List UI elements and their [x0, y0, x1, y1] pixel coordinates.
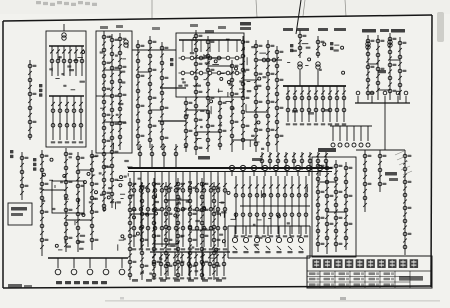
sub bus	[150, 251, 230, 253]
upper mid link chains	[139, 144, 141, 168]
S3 coupler row 1	[181, 56, 185, 60]
S2 chain b	[111, 34, 113, 208]
title right cell text	[399, 276, 423, 281]
S1 bus upper	[49, 45, 84, 47]
right column chain B	[379, 150, 381, 192]
title text	[313, 259, 321, 268]
sub bus feeders	[153, 252, 155, 276]
S2 chain c	[119, 33, 121, 150]
line crossing top border	[296, 0, 301, 34]
top labels central	[240, 22, 251, 26]
station box S8	[312, 157, 356, 257]
S8 label	[318, 148, 336, 152]
main bus double line	[128, 167, 332, 169]
umbrella label	[56, 281, 62, 284]
rank2 collector line	[240, 205, 310, 207]
title divider	[307, 270, 432, 272]
border frame left	[2, 21, 4, 288]
S1 incoming	[63, 24, 65, 31]
faint margin crossing lines	[151, 0, 153, 18]
S4 coupler bus	[258, 59, 282, 61]
S5 drop to right column	[384, 103, 386, 150]
S2-S3 link	[132, 49, 176, 51]
S5 transformer doubles	[366, 42, 370, 46]
right column chain A	[364, 150, 366, 212]
left-central ties	[138, 71, 150, 73]
S4 comb	[330, 125, 372, 127]
border frame top	[3, 15, 432, 21]
left ties	[42, 189, 66, 191]
left-central chains	[137, 40, 139, 150]
pencil scribbles	[395, 151, 404, 155]
station box S3	[176, 33, 244, 97]
S9 frame	[228, 225, 310, 227]
smudge text top-left	[36, 1, 41, 4]
S4 below feeders	[261, 152, 263, 170]
station box S2	[96, 31, 132, 153]
S5 top labels	[283, 28, 293, 31]
gray streak outside border top-right	[437, 12, 444, 42]
central ties	[186, 109, 208, 111]
S3 drops	[182, 40, 184, 52]
border frame right	[431, 15, 432, 287]
S5 bottom bus	[355, 102, 410, 104]
S4 bus	[283, 85, 346, 87]
title block outer	[307, 256, 432, 288]
left chain 2	[21, 152, 23, 200]
S8 ties	[318, 181, 336, 183]
border frame bottom	[3, 286, 431, 288]
S5 chains	[367, 35, 369, 100]
S4 transformers	[298, 62, 302, 66]
S8 chains	[317, 160, 319, 252]
S1 mid details	[59, 56, 61, 59]
S4 feeders	[287, 86, 289, 122]
S2 transformer	[124, 40, 128, 44]
bottom faint streak	[105, 300, 440, 302]
title table text	[309, 272, 316, 275]
S2 chain a	[103, 31, 105, 212]
water plant box	[52, 181, 84, 213]
S3 inner labels	[196, 85, 201, 87]
S5 ties	[368, 63, 378, 65]
S1 label	[39, 84, 42, 87]
bus hanging feeders rank2	[235, 176, 237, 234]
S1 feeders upper	[51, 46, 53, 76]
left small box	[8, 203, 32, 225]
S1 bus lower	[49, 95, 84, 97]
S3 bus	[179, 39, 241, 41]
S1 feeders lower	[52, 96, 54, 140]
bus drum units	[229, 165, 234, 170]
right distribution line	[356, 149, 405, 151]
title table verticals	[319, 271, 321, 288]
left long chain	[29, 60, 31, 140]
dense block chains	[129, 178, 131, 280]
mid labels	[198, 156, 210, 160]
station box S1	[46, 31, 86, 147]
left labels	[33, 158, 36, 161]
right labels	[385, 172, 397, 176]
central chains	[185, 97, 187, 152]
central sub-buses	[158, 120, 186, 122]
S4 labels	[290, 44, 293, 47]
S2 extra	[113, 143, 115, 150]
bus hanging feeders rank1	[133, 172, 135, 248]
title table rows	[307, 276, 410, 278]
S5 mid label	[378, 70, 386, 73]
bottom inner labels	[132, 279, 138, 282]
left area chains	[41, 150, 43, 256]
S4 label clutter	[292, 110, 298, 113]
umbrella station	[48, 257, 128, 259]
right column chain C	[404, 150, 406, 255]
labels	[170, 58, 173, 61]
S9 machines	[234, 226, 236, 236]
S2 ties	[104, 69, 120, 71]
dense ties	[130, 213, 154, 215]
bottom-left corner writing	[8, 284, 22, 288]
S3 coupler row 2	[181, 71, 185, 75]
S5 labels	[362, 29, 376, 33]
S4 incoming chains	[299, 30, 301, 58]
S4 left chains	[267, 40, 269, 152]
central clutter	[210, 100, 213, 103]
